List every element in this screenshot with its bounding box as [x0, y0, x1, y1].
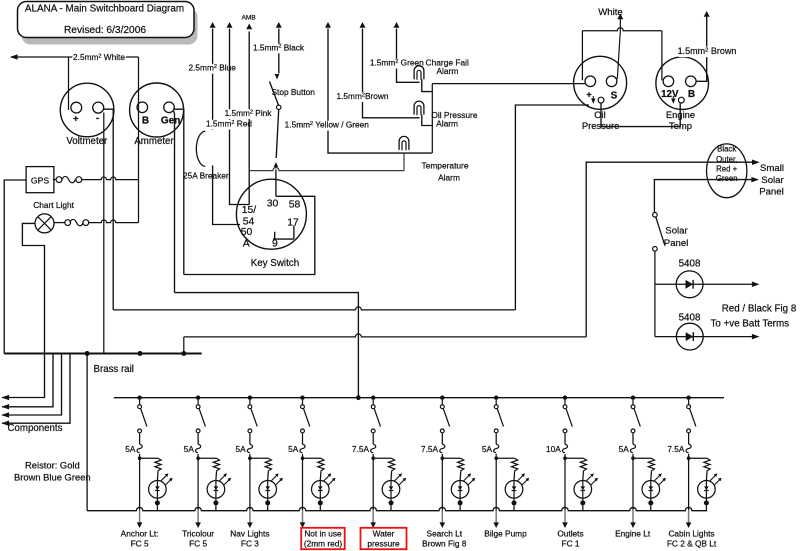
- branch 2: wire LED to bus: [215, 503, 217, 511]
- branch 1: LED arrows: [161, 475, 167, 481]
- svg-text:1.5mm2 Pink: 1.5mm2 Pink: [225, 108, 273, 118]
- arrow oil sender small: [592, 96, 594, 100]
- svg-text:30: 30: [267, 199, 279, 210]
- branch 6: LED indicator: [451, 481, 469, 499]
- branch 6: wire resistor to LED: [459, 472, 462, 481]
- wire alarm rail to AMB vertical with hop: [249, 168, 404, 171]
- svg-text:Outlets: Outlets: [557, 529, 583, 539]
- svg-text:AMB: AMB: [241, 15, 256, 22]
- svg-text:B: B: [142, 115, 149, 126]
- switch rail: [114, 397, 724, 399]
- arrow components 2: [2, 404, 10, 410]
- wire collector vertical: [431, 84, 433, 154]
- branch 1: resistor: [155, 458, 161, 472]
- branch 4: red warning box: [301, 528, 345, 549]
- branch 10: LED arrows: [710, 475, 716, 481]
- diode 2 symbol: [686, 332, 694, 341]
- branch 5: wire to resistor: [373, 457, 391, 459]
- svg-text:1.5mm2 Yellow / Green: 1.5mm2 Yellow / Green: [285, 120, 370, 130]
- junction brass rail to bottom bus: [85, 351, 90, 356]
- wire brass rail to solar line with hop: [184, 334, 586, 337]
- branch 9: junction LED to bus: [648, 500, 653, 505]
- wire up to oil gauge +: [515, 105, 589, 310]
- branch 7: wire to resistor: [496, 457, 514, 459]
- wire chart fuse to White vertical with hops: [89, 220, 139, 223]
- junction switch rail x=688.6: [686, 396, 690, 400]
- arrow left end of White wire: [10, 54, 18, 60]
- svg-text:Temperature: Temperature: [421, 161, 468, 171]
- wire components 2: [2, 354, 53, 407]
- branch 2: fuse 5A: [197, 433, 199, 444]
- branch 8: wire LED to bus: [582, 503, 584, 511]
- svg-text:FC 5: FC 5: [189, 539, 207, 549]
- branch 3: main wire down: [249, 454, 251, 510]
- LED return bus with hops: [87, 507, 707, 510]
- svg-text:FC 1: FC 1: [562, 539, 580, 549]
- branch 10: output arrow: [686, 522, 692, 528]
- wire temperature buzzer stem: [403, 153, 405, 171]
- branch 4: switch: [301, 405, 305, 409]
- wire 1.5mm Green to charge fail buzzer: [397, 29, 420, 83]
- svg-text:58: 58: [289, 200, 301, 211]
- branch 6: output arrow: [440, 522, 446, 528]
- wire chart light left to components arrow 1: [2, 223, 45, 397]
- branch 6: wire LED to bus: [459, 503, 461, 511]
- junction switch rail x=198.1: [196, 396, 200, 400]
- label 1.5mm Red: [207, 120, 252, 130]
- branch 9: LED arrows: [654, 475, 660, 481]
- branch 9: wire LED to bus: [650, 503, 652, 511]
- oil gauge S terminal: [606, 76, 617, 87]
- svg-text:Solar: Solar: [761, 175, 784, 186]
- svg-text:Brown Fig 8: Brown Fig 8: [422, 539, 467, 549]
- svg-text:FC 5: FC 5: [131, 539, 149, 549]
- wire GPS left to left bus: [4, 180, 26, 354]
- branch 2: LED indicator: [207, 481, 225, 499]
- svg-text:-: -: [96, 113, 99, 124]
- wire stop button to alarm rail: [276, 110, 279, 159]
- branch 10: wire resistor to LED: [705, 472, 708, 481]
- branch 5: switch: [371, 405, 375, 409]
- branch 7: fuse 5A: [495, 433, 497, 444]
- branch 7: LED indicator: [505, 481, 523, 499]
- wire voltmeter line to oil gauge + with hop: [113, 307, 515, 310]
- branch 2: switch: [196, 405, 200, 409]
- branch 2: junction to indicator: [196, 456, 200, 460]
- wire components 3: [2, 354, 62, 416]
- branch 4: fuse 5A: [302, 433, 304, 444]
- branch 5: wire LED to bus: [390, 503, 392, 511]
- svg-text:pressure: pressure: [367, 539, 400, 549]
- branch 8: resistor: [580, 458, 586, 472]
- branch 8: main wire down: [564, 454, 566, 510]
- title box shadow: [22, 8, 198, 45]
- svg-text:Stop Button: Stop Button: [272, 87, 316, 97]
- svg-text:5A: 5A: [288, 444, 299, 454]
- branch 7: junction LED to bus: [512, 500, 517, 505]
- branch 1: wire LED to bus: [156, 503, 158, 511]
- arrow diode 1 out: [752, 282, 760, 288]
- wire small solar panel 2: [654, 180, 755, 213]
- title box: [18, 2, 195, 38]
- svg-text:Green: Green: [716, 174, 738, 183]
- label 1.5mm Black: [252, 44, 305, 54]
- arrow top feed yellow/green: [325, 22, 331, 28]
- wire through diode 2: [655, 336, 755, 338]
- branch 6: LED arrows: [464, 475, 470, 481]
- svg-text:Revised: 6/3/2006: Revised: 6/3/2006: [64, 25, 146, 36]
- wire brass rail link vertical: [183, 337, 185, 354]
- svg-text:15/: 15/: [242, 205, 257, 216]
- branch 7: LED arrows: [517, 475, 523, 481]
- svg-text:A: A: [243, 238, 250, 249]
- arrow top feed red: [227, 22, 233, 28]
- wire AMB to pin 15/54: [248, 32, 250, 205]
- arrow diode 2 out: [752, 334, 760, 340]
- branch 1: switch: [138, 405, 142, 409]
- branch 3: fuse 5A: [249, 433, 251, 444]
- branch 6: main wire down: [441, 454, 443, 510]
- label 1.5mm Brown: [338, 92, 387, 102]
- branch 3: wire to resistor: [250, 457, 268, 459]
- branch 10: resistor: [704, 458, 710, 472]
- branch 3: resistor: [265, 458, 271, 472]
- label 1.5mm Brown right: [678, 47, 736, 58]
- svg-text:Water: Water: [373, 529, 395, 539]
- wire GPS fuse to White vertical with hops: [82, 177, 139, 180]
- ammeter B terminal: [137, 102, 148, 113]
- branch 6: resistor: [458, 458, 464, 472]
- branch 10: junction LED to bus: [704, 500, 709, 505]
- fuse GPS: [62, 176, 75, 182]
- branch 4: junction to indicator: [301, 456, 305, 460]
- label 1.5mm Green: [370, 59, 424, 69]
- wire drop to voltmeter + terminal: [68, 57, 70, 110]
- wire ammeter Gen to feed drop: [173, 111, 176, 293]
- branch 8: LED indicator: [574, 481, 592, 499]
- branch 2: junction LED to bus: [213, 500, 218, 505]
- svg-text:Brown Blue Green: Brown Blue Green: [14, 472, 91, 483]
- fuse terminal circle chart right: [83, 220, 89, 226]
- branch 5: junction LED to bus: [389, 500, 394, 505]
- branch 4: junction LED to bus: [318, 500, 323, 505]
- branch 8: output arrow: [562, 522, 568, 528]
- svg-text:Brass rail: Brass rail: [94, 364, 134, 375]
- branch 7: output arrow: [493, 522, 499, 528]
- branch 6: wire to resistor: [442, 457, 460, 459]
- arrow top feed green: [394, 22, 400, 28]
- fuse terminal circle GPS right: [76, 177, 82, 183]
- svg-text:Tricolour: Tricolour: [182, 529, 214, 539]
- svg-text:5A: 5A: [236, 444, 247, 454]
- svg-text:Anchor Lt:: Anchor Lt:: [121, 529, 159, 539]
- branch 1: fuse 5A: [139, 433, 141, 444]
- branch 10: junction to indicator: [687, 456, 691, 460]
- branch 6: junction to indicator: [441, 456, 445, 460]
- arrow pin 30 wire pointing up: [274, 162, 279, 167]
- engine gauge B terminal: [686, 76, 697, 87]
- svg-text:12V: 12V: [661, 89, 679, 100]
- stop button pivot circle: [277, 105, 281, 109]
- branch 3: wire LED to bus: [267, 503, 269, 511]
- junction switch rail x=373.2: [371, 396, 375, 400]
- junction switch rail x=302.5: [300, 396, 304, 400]
- svg-text:Bilge Pump: Bilge Pump: [484, 529, 527, 539]
- branch 4: resistor: [318, 458, 324, 472]
- branch 6: junction LED to bus: [458, 500, 463, 505]
- svg-text:5A: 5A: [619, 444, 630, 454]
- branch 4: LED arrows: [324, 475, 330, 481]
- wire 2.5mm Blue upper: [212, 29, 214, 131]
- svg-text:25A Breaker: 25A Breaker: [183, 171, 229, 181]
- svg-text:To +ve Batt Terms: To +ve Batt Terms: [711, 319, 790, 330]
- arrow top feed brown: [360, 22, 366, 28]
- junction switch rail x=496.2: [494, 396, 498, 400]
- branch 9: LED indicator: [642, 481, 660, 499]
- svg-text:Engine Lt: Engine Lt: [615, 529, 651, 539]
- branch 7: main wire down: [495, 454, 497, 510]
- wire voltmeter - down to brass rail: [103, 113, 105, 354]
- arrow top feed black: [276, 22, 282, 28]
- buzzer oil pressure alarm: [414, 101, 424, 115]
- branch 5: wire resistor to LED: [390, 472, 393, 481]
- branch 7: junction to indicator: [494, 456, 498, 460]
- branch 1: junction LED to bus: [155, 500, 160, 505]
- svg-text:B: B: [688, 89, 695, 100]
- svg-text:Oil: Oil: [594, 109, 605, 120]
- wire GPS box to fuse: [53, 179, 56, 181]
- engine gauge 12V terminal: [663, 76, 674, 87]
- voltmeter + terminal: [71, 102, 82, 113]
- branch 3: LED arrows: [271, 475, 277, 481]
- branch 1: output arrow: [137, 522, 143, 528]
- branch 3: switch: [248, 405, 252, 409]
- arrow top feed AMB: [246, 24, 252, 30]
- svg-text:Nav Lights: Nav Lights: [230, 529, 269, 539]
- branch 9: main wire down: [632, 454, 634, 510]
- wire pin 30 vertical: [275, 170, 277, 197]
- branch 1: wire to resistor: [140, 457, 158, 459]
- branch 4: wire resistor to LED: [319, 472, 322, 481]
- arrow components 4: [2, 420, 10, 426]
- junction switch rail x=249.9: [248, 396, 252, 400]
- oil sender circle: [598, 97, 604, 103]
- arrow 1.5mm Brown top right: [704, 11, 710, 17]
- svg-text:(2mm red): (2mm red): [304, 539, 342, 549]
- junction feed to switch rail: [356, 395, 361, 400]
- branch 5: output arrow: [370, 522, 376, 528]
- branch 1: LED indicator: [149, 481, 167, 499]
- svg-text:Ammeter: Ammeter: [134, 136, 174, 147]
- GPS box: [26, 167, 54, 193]
- solar switch upper circle: [653, 213, 658, 218]
- branch 9: junction to indicator: [631, 456, 635, 460]
- brass rail: [4, 353, 202, 355]
- branch 4: LED indicator: [312, 481, 330, 499]
- branch 9: wire to resistor: [633, 457, 651, 459]
- arrow components 1: [2, 395, 10, 401]
- diode 5408 upper body: [676, 271, 703, 298]
- branch 9: wire resistor to LED: [650, 472, 653, 481]
- svg-text:Components: Components: [8, 423, 63, 434]
- svg-text:Solar: Solar: [665, 225, 688, 236]
- branch 9: fuse 5A: [632, 433, 634, 444]
- junction switch rail x=565: [563, 396, 567, 400]
- branch 4: wire LED to bus: [319, 503, 321, 511]
- branch 10: main wire down: [688, 454, 690, 510]
- wire brass rail down to LED return bus: [86, 354, 88, 511]
- lamp X stroke 2: [38, 217, 51, 230]
- ellipse black outer red green: [707, 144, 747, 198]
- branch 2: resistor: [213, 458, 219, 472]
- branch 5: LED indicator: [382, 481, 400, 499]
- wire white sender vertical with hop at bar: [619, 19, 621, 33]
- branch 10: wire to resistor: [689, 457, 707, 459]
- wire 1.5mm Brown to oil pressure buzzer: [363, 29, 420, 118]
- branch 1: junction to indicator: [138, 456, 142, 460]
- fuse terminal circle GPS left: [56, 177, 62, 183]
- voltmeter - terminal: [93, 102, 104, 113]
- svg-text:7.5A: 7.5A: [667, 444, 685, 454]
- branch 3: junction LED to bus: [265, 500, 270, 505]
- branch 5: main wire down: [372, 454, 374, 510]
- branch 8: junction to indicator: [563, 456, 567, 460]
- svg-text:Key Switch: Key Switch: [251, 258, 299, 269]
- svg-text:S: S: [611, 90, 618, 101]
- wire 1.5mm Yellow/Green to temperature buzzer: [328, 29, 432, 154]
- label 1.5mm Yellow/Green: [281, 121, 373, 131]
- branch 2: LED arrows: [219, 475, 225, 481]
- junction switch rail x=139.6: [137, 396, 141, 400]
- svg-text:Black: Black: [717, 145, 736, 154]
- branch 5: fuse 7.5A: [372, 433, 374, 444]
- svg-text:ALANA - Main Switchboard Diagr: ALANA - Main Switchboard Diagram: [25, 3, 184, 14]
- wire 2.5mm White horizontal: [11, 56, 139, 58]
- svg-text:FC 3: FC 3: [241, 539, 259, 549]
- branch 7: switch: [494, 405, 498, 409]
- branch 6: fuse 7.5A: [441, 433, 443, 444]
- svg-text:Alarm: Alarm: [438, 173, 460, 183]
- lamp X stroke 1: [38, 217, 51, 230]
- wire bar right drop to engine left terminal: [661, 31, 663, 81]
- svg-text:17: 17: [287, 218, 299, 229]
- branch 1: main wire down: [139, 454, 141, 510]
- breaker 25A arc: [196, 131, 205, 167]
- wire sender U link oil to engine: [601, 103, 680, 127]
- branch 10: fuse 7.5A: [688, 433, 690, 444]
- svg-text:+: +: [73, 114, 79, 125]
- branch 9: output arrow: [630, 522, 636, 528]
- svg-text:Gen: Gen: [161, 115, 180, 126]
- branch 3: wire resistor to LED: [267, 472, 270, 481]
- svg-text:Reistor: Gold: Reistor: Gold: [25, 460, 80, 471]
- junction brass rail node: [138, 351, 143, 356]
- branch 3: output arrow: [247, 522, 253, 528]
- voltmeter body: [60, 83, 114, 137]
- arrow black wire end at stop button: [275, 74, 280, 80]
- wire components 4: [2, 354, 70, 424]
- branch 2: main wire down: [197, 454, 199, 510]
- branch 5: resistor: [389, 458, 395, 472]
- wire collector to oil gauge left terminal: [432, 83, 585, 85]
- label 2.5mm White: [72, 53, 126, 63]
- branch 7: resistor: [511, 458, 517, 472]
- oil pressure gauge body: [574, 56, 627, 109]
- branch 6: switch: [440, 405, 444, 409]
- junction switch rail x=442.3: [440, 396, 444, 400]
- svg-text:Search Lt: Search Lt: [427, 529, 463, 539]
- label 1.5mm Pink: [223, 109, 272, 119]
- svg-text:FC 2 & QB Lt: FC 2 & QB Lt: [667, 539, 717, 549]
- stop button blade: [270, 82, 279, 106]
- svg-text:1.5mm2 Red: 1.5mm2 Red: [206, 119, 252, 129]
- branch 10: switch: [687, 405, 691, 409]
- wire ammeter right edge down to key switch loop: [174, 109, 184, 274]
- fuse terminal circle chart left: [65, 220, 71, 226]
- junction switch rail x=633: [631, 396, 635, 400]
- branch 8: junction LED to bus: [580, 500, 585, 505]
- svg-text:Outer,: Outer,: [716, 155, 737, 164]
- wire bar left drop to oil left terminal: [581, 31, 583, 81]
- arrow white sender wire: [617, 14, 623, 20]
- branch 8: switch: [563, 405, 567, 409]
- wire through diode 1: [655, 283, 755, 285]
- branch 9: switch: [631, 405, 635, 409]
- branch 7: wire resistor to LED: [513, 472, 516, 481]
- svg-text:Alarm: Alarm: [436, 118, 458, 128]
- svg-text:Small: Small: [760, 163, 784, 174]
- svg-text:5A: 5A: [184, 444, 195, 454]
- wire White vertical down to GPS/chart lines: [138, 57, 140, 223]
- svg-text:7.5A: 7.5A: [352, 444, 370, 454]
- wire voltmeter - stub to x=113: [104, 109, 114, 310]
- buzzer temperature alarm: [399, 136, 409, 149]
- svg-text:Alarm: Alarm: [436, 66, 458, 76]
- svg-text:Voltmeter: Voltmeter: [66, 136, 108, 147]
- branch 10: wire LED to bus: [705, 503, 707, 511]
- wire engine B to brown arrow: [696, 16, 707, 81]
- svg-text:10A: 10A: [546, 444, 561, 454]
- svg-text:Cabin Lights: Cabin Lights: [668, 529, 714, 539]
- arrow components 3: [2, 412, 10, 418]
- branch 7: wire LED to bus: [513, 503, 515, 511]
- branch 8: wire resistor to LED: [582, 472, 585, 481]
- wire 2.5mm Blue lower to key switch pin 50: [213, 166, 240, 225]
- solar switch lower circle: [653, 247, 658, 252]
- svg-text:5A: 5A: [482, 444, 493, 454]
- wire lamp to fuse: [54, 222, 65, 224]
- arrow engine sender small: [672, 96, 674, 100]
- fuse chart light: [70, 219, 83, 225]
- wire ammeter feed to switch rail: [175, 293, 359, 398]
- arrow small solar panel 1: [752, 159, 760, 165]
- branch 5: red warning box: [361, 528, 407, 549]
- wire pin 30 loop to ammeter line: [184, 196, 315, 274]
- svg-text:5408: 5408: [679, 312, 701, 323]
- svg-text:5A: 5A: [125, 444, 136, 454]
- branch 5: LED arrows: [394, 475, 400, 481]
- branch 9: resistor: [648, 458, 654, 472]
- branch 8: wire to resistor: [565, 457, 583, 459]
- key switch body: [236, 179, 306, 249]
- svg-text:Panel: Panel: [759, 186, 784, 197]
- wire charge fail right leg to collector: [422, 79, 433, 91]
- wire up to small solar panel line: [586, 162, 756, 337]
- branch 3: junction to indicator: [248, 456, 252, 460]
- arrow small solar panel 2: [751, 177, 759, 183]
- branch 10: LED indicator: [698, 481, 716, 499]
- svg-text:9: 9: [272, 238, 278, 249]
